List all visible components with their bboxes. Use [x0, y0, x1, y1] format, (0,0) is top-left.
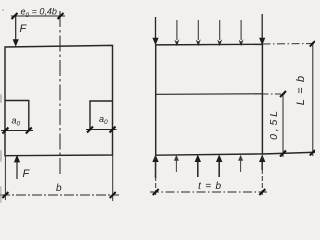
dimension L=b: [295, 41, 315, 156]
mid-height line: [156, 93, 263, 96]
center line: [59, 11, 61, 177]
top distributed load arrows: [152, 14, 265, 46]
extension line t=b right: [261, 155, 263, 196]
dimension 0,5L: [268, 91, 286, 157]
force F arrow (top): [13, 16, 19, 47]
svg-text:0,5L: 0,5L: [268, 108, 280, 140]
block outline (left figure): [5, 45, 113, 155]
extension of bottom edge: [263, 152, 316, 154]
dimension t=b: [150, 181, 267, 195]
dimension a0 (right): [86, 114, 117, 133]
svg-text:L = b: L = b: [295, 75, 307, 106]
reaction F arrow (bottom): [14, 155, 20, 179]
svg-text:t = b: t = b: [198, 181, 222, 192]
block outline (right figure): [156, 44, 263, 155]
extension line bottom left: [4, 155, 6, 200]
bottom reaction arrows: [152, 155, 265, 179]
left bearing notch: [5, 101, 29, 131]
extension of top edge: [263, 43, 316, 46]
dimension b: [0, 183, 119, 198]
svg-text:b: b: [56, 183, 62, 194]
right bearing notch: [90, 101, 113, 130]
extension of mid line: [263, 93, 288, 95]
dimension a0 (left): [1, 116, 33, 134]
dimension e0=0.4b: [11, 7, 65, 20]
paper noise (decorative): [0, 9, 4, 203]
extension line t=b left: [155, 155, 157, 196]
extension line bottom right: [112, 155, 114, 201]
